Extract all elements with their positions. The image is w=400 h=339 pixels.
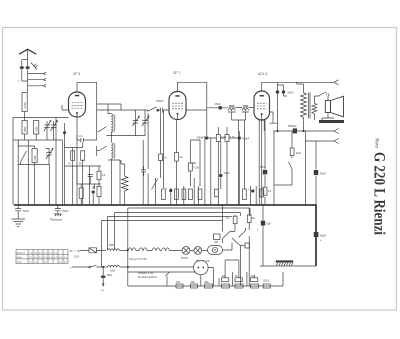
wire: CF3 grid network	[65, 148, 102, 185]
svg-text:2kΩ: 2kΩ	[296, 151, 301, 155]
tube CF3 anode bar	[75, 95, 79, 97]
resistor R16 2kOhm	[290, 148, 294, 156]
svg-text:750pF: 750pF	[156, 99, 164, 103]
coil L4	[32, 149, 37, 163]
resistor R7	[175, 189, 179, 200]
node: junction 750	[156, 109, 159, 112]
svg-text:+: +	[320, 238, 322, 242]
resistor Rk CF7	[174, 153, 178, 162]
wire: vertical x305.4	[304, 131, 306, 205]
svg-text:1Ω: 1Ω	[180, 157, 183, 159]
coil: heater choke 2	[108, 265, 194, 267]
svg-text:Nora: Nora	[374, 137, 380, 148]
resistor R12	[225, 135, 229, 142]
capacitor: 8uF	[262, 205, 264, 266]
svg-text:UCL 4: UCL 4	[258, 72, 267, 76]
svg-text:1000: 1000	[36, 126, 39, 132]
tube CF7 anode bar	[175, 95, 179, 97]
resistor R1	[71, 151, 75, 161]
resistor R6	[159, 154, 163, 161]
tube CF7 grid dashes	[172, 103, 183, 109]
resistor 240b pair	[222, 284, 230, 288]
node: feed junctions	[127, 249, 129, 251]
resistor R5	[97, 186, 101, 196]
wire: nested feed lines	[102, 208, 251, 221]
wire: UCL cathode links	[259, 112, 277, 205]
transformer: secondary zigzag	[312, 96, 317, 120]
resistor R10	[198, 189, 202, 200]
resistor R15	[263, 187, 267, 195]
capacitor: 200pF dot right	[238, 136, 241, 139]
resistor R8	[182, 189, 186, 200]
svg-text:50nF: 50nF	[260, 165, 266, 169]
svg-text:+: +	[166, 186, 168, 190]
svg-text:50nF: 50nF	[23, 209, 29, 213]
ground bus	[14, 205, 316, 266]
wire: heater B line	[72, 266, 89, 268]
wire: left column verticals to bus	[13, 112, 63, 206]
capacitor: 50nF mid	[141, 166, 146, 176]
svg-text:250: 250	[214, 241, 219, 244]
svg-text:CF3 Lp CF7 CF7: CF3 Lp CF7 CF7	[129, 258, 148, 261]
speaker magnet bar	[319, 120, 344, 123]
resistor 850	[205, 284, 213, 288]
svg-text:200pF: 200pF	[197, 136, 205, 140]
wire: CF3 anode top rail	[77, 82, 97, 123]
resistor 50 pair	[235, 284, 243, 288]
trimmer C3	[46, 149, 53, 161]
heater: CF7 filament	[152, 248, 162, 251]
wire: speaker return	[322, 96, 334, 120]
switch: oscillator pad a	[97, 123, 107, 140]
tube UCL11 cathode dot	[261, 113, 263, 115]
node: band contacts with arrows	[28, 72, 46, 75]
resistor R9	[189, 189, 193, 200]
tube UCL11	[254, 91, 270, 120]
wire: CF3 lower links	[81, 184, 99, 205]
svg-text:Batterien: Batterien	[17, 251, 26, 254]
switch: mains selector arms	[223, 228, 246, 246]
wire: motor links	[201, 268, 214, 287]
wire: vertical x265 with cap	[264, 120, 266, 205]
svg-text:Schalter a nur: Schalter a nur	[138, 272, 154, 275]
svg-text:1000: 1000	[110, 269, 116, 272]
wire: cap pair verticals	[278, 82, 288, 123]
resistor 2k chain	[291, 131, 293, 148]
svg-text:50: 50	[235, 275, 238, 278]
heater: CF7b filament	[162, 248, 183, 251]
svg-text:L: L	[18, 78, 20, 82]
wire: barretter out	[223, 243, 233, 250]
svg-text:40μF: 40μF	[320, 234, 326, 238]
svg-text:0,3: 0,3	[268, 191, 272, 193]
svg-text:0,1: 0,1	[79, 134, 83, 138]
tube UCL11 anode bar	[260, 95, 264, 97]
barretter CH7	[208, 246, 223, 255]
svg-text:CF 3: CF 3	[73, 72, 80, 76]
resistor R13	[243, 189, 247, 200]
trimmer C4	[133, 116, 140, 127]
svg-text:70: 70	[68, 164, 71, 166]
tube CF7	[169, 92, 186, 120]
resistor 0.1M	[188, 163, 192, 171]
capacitor: 750pF	[158, 108, 165, 113]
svg-text:50nF: 50nF	[288, 91, 294, 95]
switch: battery	[89, 266, 91, 268]
ground	[12, 219, 26, 227]
capacitor: 5000pF feedthrough	[293, 128, 297, 133]
wire: grid line CF3-CF7	[97, 109, 121, 111]
svg-text:+: +	[248, 187, 250, 191]
svg-text:0000: 0000	[24, 126, 27, 132]
wire: left column horizontals	[13, 118, 69, 165]
wire: mid verticals to bus	[143, 110, 205, 205]
svg-text:50: 50	[252, 217, 255, 220]
coil L2	[22, 121, 27, 135]
battery table	[16, 250, 68, 264]
capacitor: dot electrolytic CF3	[92, 190, 95, 193]
capacitor: 0.1uF coupling	[62, 105, 97, 143]
resistor bank near bus	[162, 189, 166, 200]
capacitor: 40uF	[314, 232, 319, 237]
coil T1a (bump coil)	[112, 114, 115, 133]
coil: heater choke 1	[108, 249, 128, 251]
svg-text:1000: 1000	[109, 244, 115, 247]
tube CF3 cathode dot	[76, 112, 78, 114]
svg-text:1000: 1000	[23, 102, 27, 108]
capacitor: 50uF electrolytic to L+	[102, 267, 104, 284]
node: bus junction dots	[17, 204, 306, 206]
wire: vertical x316 feed	[315, 141, 317, 205]
wire: primary top to rail	[297, 82, 304, 84]
tube UCL11 grid dashes	[257, 103, 267, 109]
coil T1b (bump coil)	[112, 142, 115, 158]
wire: T1 links	[107, 110, 146, 205]
svg-text:50μF: 50μF	[107, 274, 113, 277]
wire: to UCL grid	[232, 108, 254, 206]
svg-text:150: 150	[176, 281, 181, 284]
capacitor: ground 50nF left	[15, 205, 21, 219]
switch: AVC	[152, 179, 158, 190]
transformer: core lines	[309, 93, 310, 119]
switch: small arm	[166, 272, 170, 286]
motor M	[194, 260, 209, 275]
svg-text:+: +	[70, 266, 72, 270]
heater: Lp filament	[139, 248, 152, 251]
wire: line y141 with terminal	[305, 140, 334, 142]
wire: vertical x274	[273, 131, 275, 205]
svg-text:0,3: 0,3	[102, 175, 106, 177]
svg-text:150,0: 150,0	[263, 280, 270, 283]
wire: dash-dot link	[70, 250, 80, 252]
wire: B+ line y131 with terminal	[273, 130, 334, 132]
small box 250	[214, 234, 221, 240]
wire: detector line to CF7	[121, 109, 169, 111]
svg-text:10μF: 10μF	[224, 171, 230, 175]
svg-text:50nF: 50nF	[63, 209, 69, 213]
wire: detector row links	[207, 127, 240, 205]
resistor R2	[81, 151, 85, 161]
terminal arrow y141	[334, 139, 339, 144]
chassis hatched strip	[276, 262, 294, 266]
svg-text:Rückwand: Rückwand	[50, 218, 63, 222]
wire: UCL anode top rail to output terminal	[262, 82, 334, 91]
capacitor: Rueckwand	[54, 205, 62, 216]
resistor 150	[176, 284, 183, 288]
coil: IF2 a	[228, 106, 236, 112]
wire: antenna fork	[22, 59, 28, 61]
resistor R3	[79, 188, 83, 198]
switch: speaker jack	[315, 92, 329, 96]
svg-text:+: +	[257, 228, 259, 232]
svg-text:25nF: 25nF	[215, 102, 221, 106]
wire: note box top	[128, 271, 196, 273]
svg-text:1000: 1000	[34, 155, 37, 161]
coil: IF2 b	[242, 106, 249, 112]
capacitor: electrolytic + dot	[169, 189, 172, 192]
terminal arrow (top right)	[334, 80, 339, 85]
coil L3	[34, 121, 39, 135]
lamp 5V	[182, 247, 190, 255]
svg-text:CF 7: CF 7	[173, 71, 180, 75]
capacitor: antenna blob right	[27, 60, 29, 93]
wire: cluster verticals	[223, 205, 250, 286]
capacitor: screen bypass	[88, 175, 93, 185]
wire: osc verticals	[108, 160, 120, 205]
resistor 150b	[263, 284, 270, 288]
resistor 240a	[191, 284, 198, 288]
trimmer C1	[44, 121, 51, 133]
svg-text:1,0: 1,0	[164, 158, 168, 160]
fuse F1	[80, 248, 106, 253]
wire: bottom resistor row	[128, 272, 283, 286]
svg-text:bei 2x20 geöffnet: bei 2x20 geöffnet	[138, 276, 157, 279]
heater: CF3 filament	[128, 248, 140, 251]
antenna	[19, 49, 36, 59]
IF transformer T1 top links	[97, 104, 121, 114]
svg-text:50: 50	[79, 164, 82, 166]
capacitor: electrolytic pair dots	[276, 90, 279, 93]
tube CF7 cathode dot	[177, 113, 179, 115]
svg-text:200pF: 200pF	[242, 137, 250, 141]
lamp 12V	[194, 247, 202, 255]
switch: tone	[274, 156, 292, 186]
coil L1 (antenna)	[22, 93, 27, 112]
svg-text:Lamp: Lamp	[17, 262, 23, 264]
wire: CF3 area verticals	[65, 117, 100, 205]
tube CF3 grid dashes	[72, 103, 83, 109]
node: junction dots on y131	[302, 130, 304, 132]
switch: wave band arm	[21, 151, 27, 165]
svg-text:0,1M: 0,1M	[194, 168, 199, 170]
wire: CF7 anode top rail	[178, 82, 207, 136]
capacitor: 50uF	[314, 170, 318, 175]
wire: bottom return y=266	[260, 265, 316, 267]
svg-text:8μF: 8μF	[267, 222, 272, 226]
svg-text:12V: 12V	[74, 255, 79, 259]
choke: zigzag coil	[121, 160, 128, 205]
svg-text:Skala: Skala	[17, 257, 23, 259]
svg-text:240: 240	[191, 281, 196, 284]
svg-text:0,1: 0,1	[226, 217, 230, 220]
transformer: output primary zigzag	[301, 84, 307, 131]
tube CF3	[69, 92, 86, 117]
capacitor: 25nF blob	[207, 107, 228, 109]
resistor 240c	[251, 284, 259, 288]
resistor R4 (screen)	[97, 171, 101, 180]
switch: oscillator pad b	[97, 146, 107, 156]
note text	[138, 272, 157, 279]
resistor R14	[260, 189, 264, 197]
resistor R17	[233, 216, 237, 224]
trimmer C5	[142, 116, 149, 127]
capacitor: antenna blob left	[22, 60, 28, 81]
switch: band switch arm (antenna)	[31, 63, 38, 70]
terminal arrow y131	[334, 129, 339, 134]
wire: CF7 anode row	[186, 110, 207, 163]
svg-text:5V12V: 5V12V	[181, 257, 189, 260]
trimmer C2	[51, 121, 58, 133]
resistor near bus	[214, 189, 218, 197]
capacitor: 50nF filled	[263, 170, 267, 175]
resistor R18	[247, 215, 251, 223]
wire: nested feed drops	[102, 208, 128, 286]
svg-text:L+: L+	[101, 288, 105, 292]
node: junction	[102, 266, 104, 268]
svg-text:50nF: 50nF	[320, 172, 326, 176]
capacitor: electrolytic dot	[251, 189, 254, 192]
svg-text:G 220 L Rienzi: G 220 L Rienzi	[370, 152, 387, 236]
wire: row riser links	[219, 260, 254, 286]
svg-text:850: 850	[205, 281, 210, 284]
capacitor: CF3 cathode dot	[63, 131, 66, 134]
wire: verticals right-mid	[245, 120, 257, 205]
battery table text	[17, 251, 68, 263]
resistor R11	[216, 135, 220, 142]
wire	[190, 250, 208, 252]
svg-text:5000pF: 5000pF	[288, 124, 297, 128]
speaker LS	[325, 96, 343, 117]
capacitor: 10nF	[219, 174, 223, 178]
switch: wave change	[148, 107, 157, 111]
